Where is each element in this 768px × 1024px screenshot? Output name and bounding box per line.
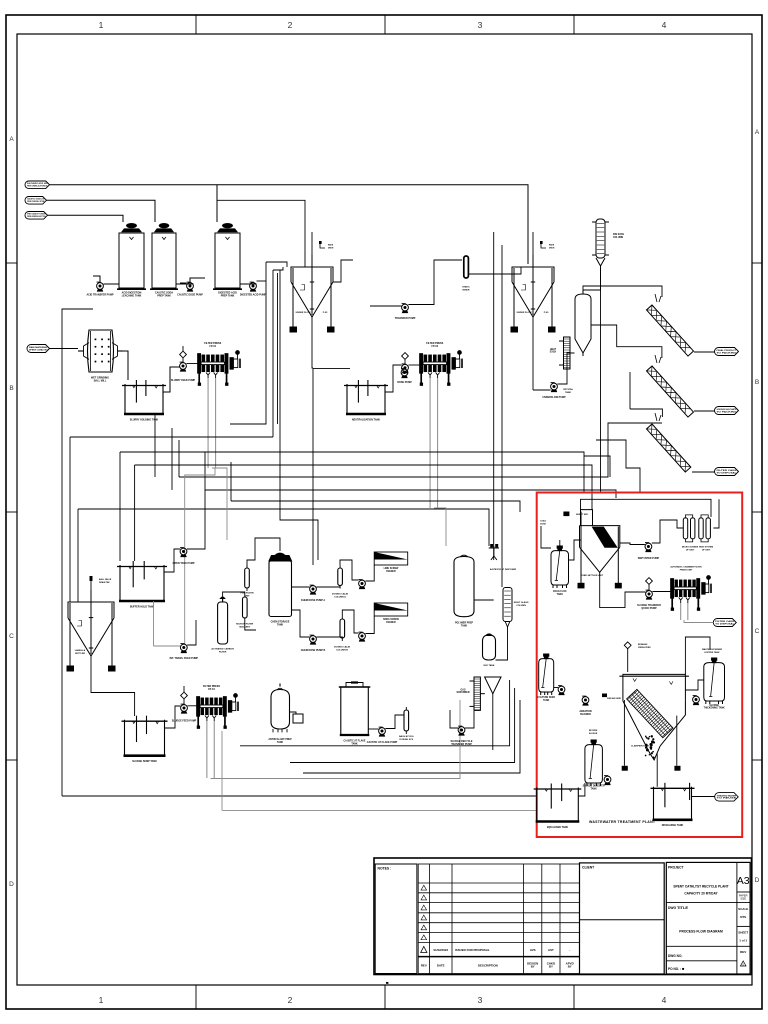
clarifier CL-02 secondary thickener <box>511 255 555 332</box>
zone numbers <box>99 20 667 1005</box>
svg-text:FILTER PRESSFP-02: FILTER PRESSFP-02 <box>426 342 443 348</box>
svg-text:A3: A3 <box>737 875 750 887</box>
pump P-16 screw feeder pump A <box>359 580 366 590</box>
svg-text:RAKEDRIVE: RAKEDRIVE <box>328 244 334 250</box>
svg-text:ACTIVATED CARBONFILTER: ACTIVATED CARBONFILTER <box>211 648 234 654</box>
svg-text:1: 1 <box>99 995 104 1005</box>
return line y=773 to WWTP riser <box>303 700 520 773</box>
vessel V-02 chemical storage <box>269 553 292 616</box>
svg-text:B: B <box>755 379 759 386</box>
svg-text:RAKEDRIVE: RAKEDRIVE <box>549 244 555 250</box>
conveyor C-01 product belt conveyor <box>647 305 694 356</box>
svg-text:NAOH AT 20%DOSING SYS: NAOH AT 20%DOSING SYS <box>399 735 414 741</box>
pump P-W5 beside TK-W3 <box>693 696 700 706</box>
svg-text:SPENT CATALYST POWDERFROM GRIN: SPENT CATALYST POWDERFROM GRINDING SECTI… <box>27 213 46 218</box>
pump P-06 transfer pump to static mixer <box>402 304 409 314</box>
svg-text:COAGDOSE: COAGDOSE <box>540 520 546 526</box>
svg-text:PAPERSIZE: PAPERSIZE <box>739 894 748 901</box>
wire air inlet down to MBBR tank <box>627 649 629 672</box>
gray equalisation line y=810 <box>222 809 537 811</box>
diamond valve before FP-02 <box>402 353 409 360</box>
tank T-01 ACID DIGESTION LEACHING TANK <box>117 223 146 289</box>
flag label SPENT CATALYST feed <box>25 212 48 220</box>
wire dosing train B <box>316 637 342 638</box>
svg-text:AUTOMATIC CHAMBER FILTERPRESS: AUTOMATIC CHAMBER FILTERPRESS UNIT <box>670 566 702 572</box>
svg-text:NOTES :: NOTES : <box>378 867 392 871</box>
wire DAF-01 overflow to pump P-W1 <box>620 543 645 545</box>
svg-text:SLUDGE FEED PUMP: SLUDGE FEED PUMP <box>172 720 197 723</box>
open tank TK-W6 treated water sump <box>651 783 695 820</box>
agitator tank TK-W1 coagulation tank <box>551 546 569 588</box>
svg-text:STATICMIXER: STATICMIXER <box>462 286 470 292</box>
svg-text:WET GRINDINGBALL MILL: WET GRINDINGBALL MILL <box>91 377 109 383</box>
capsule EFFLUENT TO TREATMENT <box>713 619 736 627</box>
svg-text:P-09: P-09 <box>544 312 549 314</box>
svg-text:TREATED WATERTO REUSE: TREATED WATERTO REUSE <box>717 794 737 799</box>
wire from slurry tank TK-B to pump P-06 <box>370 305 402 307</box>
wire tank TK-F to pump P-13 <box>165 706 181 728</box>
wire top header red box row1 <box>581 499 712 517</box>
plate settler ST-W1 MBBR clarifier <box>619 674 689 760</box>
wire TK-W5 to settler area <box>578 783 585 796</box>
open tank TK-W5 aeration holding tank inside red box left <box>534 784 582 822</box>
svg-text:3: 3 <box>478 995 483 1005</box>
vessel V-03 poly prep tank <box>454 555 474 617</box>
wire FP-03 drains to capsule <box>684 620 713 623</box>
inline static mixer SM-01 <box>464 256 469 278</box>
wire into clarifier CL-01 from top <box>311 232 313 267</box>
wire tank T-03 to pump P-03 <box>240 283 257 285</box>
svg-text:D: D <box>755 877 760 884</box>
svg-text:ACID DIGESTIONLEACHING TANK: ACID DIGESTIONLEACHING TANK <box>122 292 142 298</box>
filter press FP-02 <box>420 351 462 386</box>
motor symbol M on DAF feed <box>563 512 569 517</box>
wire tank T-01 to pump P-01 <box>104 283 120 285</box>
routing bundle horizontal lines mid sheet <box>70 436 273 438</box>
svg-text:CLIENT: CLIENT <box>582 866 595 870</box>
svg-text:CHEM DOSE PUMP A: CHEM DOSE PUMP A <box>301 599 326 602</box>
svg-text:BIOMASSFRESH FEED: BIOMASSFRESH FEED <box>638 643 651 649</box>
pump P-13 press feed pump <box>181 704 188 714</box>
svg-text:SHEET MIX: SHEET MIX <box>576 514 588 516</box>
svg-text:SLUDGE TRANSFERQUICK PUMP: SLUDGE TRANSFERQUICK PUMP <box>637 604 661 610</box>
press FP-02 filtrate gray collection <box>434 508 446 546</box>
wire tank T-02 to pump P-02 <box>176 283 194 285</box>
wire column CR-01 down to vessel V-01 <box>583 266 601 294</box>
svg-text:BALL VALVEDRAIN TAP: BALL VALVEDRAIN TAP <box>99 578 112 584</box>
svg-text:DWG TITLE: DWG TITLE <box>668 905 688 910</box>
wire pump P-02 up to digestion line <box>190 278 205 283</box>
funnel FN-01 to drain <box>485 677 501 694</box>
svg-text:FILTER PRESSFP-04: FILTER PRESSFP-04 <box>203 685 220 691</box>
svg-text:DIGESTED ACID PUMP: DIGESTED ACID PUMP <box>240 294 267 297</box>
pump P-03 digested acid pump <box>250 282 257 292</box>
pump P-18 caustic pump <box>379 727 386 737</box>
pump P-10 chilled pump under CL-02 <box>551 383 558 393</box>
agitator tank TK-W4 digester left <box>585 740 603 786</box>
svg-text:REV: REV <box>421 964 427 968</box>
extra feed riser <box>277 273 279 424</box>
svg-text:SODIUM SULPHATETO PACKING: SODIUM SULPHATETO PACKING <box>717 408 738 413</box>
flag label CAUSTIC SODA lye <box>25 197 47 205</box>
svg-text:AST: AST <box>548 948 554 952</box>
wire into V-02 <box>247 538 280 568</box>
svg-text:P-05: P-05 <box>323 312 328 314</box>
svg-text:DATE: DATE <box>437 964 445 968</box>
wire feed to conveyor C-03 <box>630 409 662 417</box>
main recycle water line y=796 <box>62 795 537 797</box>
svg-text:NEUTRALISATION TANK: NEUTRALISATION TANK <box>352 418 380 421</box>
clarifier CL-01 overflow to slurry tank TK-B <box>333 260 353 282</box>
capsule CAKE TO DISPOSAL <box>715 468 739 476</box>
svg-text:ISSUED FOR PROPOSAL: ISSUED FOR PROPOSAL <box>455 948 490 952</box>
wire valve up <box>182 346 184 351</box>
screw feeder SF-B with wedge <box>374 603 408 616</box>
wire DAF underflow to pump P-W2 <box>600 572 646 608</box>
wire settler top to TK-W3 top <box>685 637 710 674</box>
svg-text:DOSING CALIBCOLUMN B: DOSING CALIBCOLUMN B <box>334 646 350 652</box>
wire ACF to strainer <box>223 592 245 602</box>
svg-text:CAUSTIC AT FLAKETANK: CAUSTIC AT FLAKETANK <box>344 740 366 746</box>
motor symbol M blower <box>602 694 607 698</box>
flag label RAW MATERIAL SPENT CATALYST <box>27 345 50 353</box>
wire from sulphuric acid flag to tank T-03 and clarifier CL-02 <box>50 185 529 264</box>
digestion transfer wire to clarifier CL-01 <box>217 200 305 267</box>
flag on clarifier CL-03 top <box>90 578 92 602</box>
svg-text:SCALENTS: SCALENTS <box>738 907 748 919</box>
membrane module MF-B <box>699 515 711 542</box>
capsule PRODUCT-1 TO PACKING <box>715 348 739 356</box>
svg-text:A: A <box>9 136 14 143</box>
wire TK-W6 to capsule <box>692 796 715 798</box>
svg-text:HEATEXCH: HEATEXCH <box>550 348 557 354</box>
wire flag to ball mill <box>50 348 79 350</box>
svg-text:PO NO. : ■: PO NO. : ■ <box>668 966 685 971</box>
svg-text:FINE FILTERUNIT: FINE FILTERUNIT <box>240 593 254 598</box>
svg-text:HIGH SYSTEMUF UNIT: HIGH SYSTEMUF UNIT <box>699 547 714 552</box>
svg-text:WASTEWATER TREATMENT PLANT: WASTEWATER TREATMENT PLANT <box>589 820 656 824</box>
svg-text:LIME SCREWFEEDER: LIME SCREWFEEDER <box>384 568 400 573</box>
svg-text:SLUDGETHICKENING TANK: SLUDGETHICKENING TANK <box>704 705 725 710</box>
legs of settler ST-W1 <box>623 700 625 766</box>
svg-text:DOSING CALIBCOLUMN A: DOSING CALIBCOLUMN A <box>332 593 348 599</box>
svg-text:UNDER FLOW: UNDER FLOW <box>517 312 533 314</box>
svg-text:DIGESTED ACIDPREP TANK: DIGESTED ACIDPREP TANK <box>218 292 237 298</box>
svg-text:CAUSTIC DOSE PUMP: CAUSTIC DOSE PUMP <box>177 294 203 297</box>
diamond valve before filter press FP-04 <box>181 692 188 699</box>
revision row text <box>421 948 574 969</box>
svg-text:ACID TRANSFER PUMP: ACID TRANSFER PUMP <box>86 294 113 297</box>
pump P-W6 beside TK-W4 <box>604 776 611 786</box>
clarifier CL-02 underflow down <box>532 317 534 390</box>
client cell <box>580 863 665 974</box>
pump P-17 screw feeder pump B <box>359 632 366 642</box>
svg-text:CHKDBY: CHKDBY <box>547 962 555 969</box>
svg-text:GASSCRUBBER: GASSCRUBBER <box>456 688 469 694</box>
svg-text:CRYSTALTANK: CRYSTALTANK <box>563 388 574 394</box>
revision table <box>418 864 579 974</box>
svg-text:CAUSTIC SODAPREP TANK: CAUSTIC SODAPREP TANK <box>155 292 173 298</box>
project cell <box>666 862 750 974</box>
title block frame <box>374 858 752 975</box>
svg-text:AGITATOR AT DISPOSER: AGITATOR AT DISPOSER <box>490 568 517 571</box>
packed column PC-02 degasser <box>470 677 485 710</box>
revision triangles <box>421 885 427 890</box>
conveyor C-02 product belt conveyor <box>647 366 694 417</box>
return line y=745 from press area to WWTP riser <box>240 680 510 746</box>
dosing bar DS-02 <box>404 710 409 731</box>
wire settler to TK-W3 <box>685 680 703 690</box>
svg-text:PROJECT: PROJECT <box>668 866 684 870</box>
wire feed to conveyor C-02 from crystalliser overflow <box>591 325 662 358</box>
wire SG-01 down <box>496 627 508 660</box>
svg-text:CHEM DOSE PUMP B: CHEM DOSE PUMP B <box>301 649 326 652</box>
svg-text:CLARIFIER TANK: CLARIFIER TANK <box>631 745 650 748</box>
svg-text:RETURNSLUDGE: RETURNSLUDGE <box>589 730 598 735</box>
svg-text:DWG NO.: DWG NO. <box>668 954 682 958</box>
capsule PRODUCT-2 TO PACKING <box>715 407 739 415</box>
svg-text:DISCHARGE TANK: DISCHARGE TANK <box>662 824 684 827</box>
tank T-02 CAUSTIC SODA PREP TANK <box>150 223 178 289</box>
wire TK-B to pump P-08 <box>385 365 402 392</box>
tall column CR-01 ion exchange column <box>592 219 609 258</box>
wire V-03 to SG-01 <box>474 599 494 601</box>
svg-text:3: 3 <box>478 20 483 30</box>
stair wire to red box A <box>596 440 640 493</box>
pump P-19 sludge recycle pump <box>458 726 465 736</box>
svg-text:SHEET1 of 1: SHEET1 of 1 <box>738 931 748 943</box>
pump P-15 dosing pump B <box>310 635 317 645</box>
motor flag on clarifier CL-01 shaft <box>320 242 325 248</box>
svg-text:CHEM STORAGETANK: CHEM STORAGETANK <box>271 621 290 627</box>
svg-text:1: 1 <box>99 20 104 30</box>
pump P-14 dosing pump A <box>310 585 317 595</box>
activated carbon filter column ACF-01 <box>218 597 228 644</box>
svg-text:SULPHURIC ACID 98%FROM CHEMICA: SULPHURIC ACID 98%FROM CHEMICAL STORAGE <box>27 182 48 187</box>
svg-text:2: 2 <box>288 20 293 30</box>
open tank TK-F filter feed tank <box>122 716 168 756</box>
svg-text:SPENT CATALYST RECYCLE PLANTCA: SPENT CATALYST RECYCLE PLANTCAPACITY 20 … <box>673 885 728 896</box>
red boundary WASTEWATER TREATMENT PLANT battery limit <box>537 493 743 838</box>
open tank TK-C intermediate tank <box>117 561 167 601</box>
press FP-01 filtrate gray collection <box>212 468 227 540</box>
filter press FP-03 <box>671 576 711 611</box>
svg-text:TRANSFER PUMP: TRANSFER PUMP <box>395 317 416 320</box>
inline strainer bar ST-01 <box>243 597 248 618</box>
ball mill BM-01 WET GRINDING BALL MILL <box>78 330 123 372</box>
svg-text:SLUDGE DIGESTERTANK: SLUDGE DIGESTERTANK <box>583 786 605 791</box>
inline strainer before V-02 <box>245 568 250 588</box>
wire pump P-W1 up to membranes <box>652 520 683 543</box>
funnel stem <box>492 694 494 750</box>
diamond valve before filter press FP-01 <box>180 351 187 358</box>
calibration column B <box>340 619 345 638</box>
svg-text:CAUSTIC AT FLAKE PUMP: CAUSTIC AT FLAKE PUMP <box>367 741 398 744</box>
capsule TREATED WATER DISPOSAL <box>715 793 739 802</box>
svg-text:-: - <box>569 948 570 952</box>
svg-text:SLURRY HOLDING TANK: SLURRY HOLDING TANK <box>130 418 159 421</box>
wire static mixer to clarifier CL-02 <box>468 267 521 274</box>
svg-text:ANTISCALANT PREPTANK: ANTISCALANT PREPTANK <box>268 738 292 744</box>
pump P-W2 sludge transfer pump <box>646 590 653 600</box>
pump P-04 slurry feed pump <box>180 362 187 372</box>
svg-text:C: C <box>9 633 14 640</box>
svg-text:UNDERFLOW PUMP: UNDERFLOW PUMP <box>542 396 566 399</box>
svg-text:FINAL PRODUCTTO PACKING: FINAL PRODUCTTO PACKING <box>717 349 738 354</box>
flag label SULPHURIC ACID from storage <box>25 181 50 189</box>
svg-text:DESIGNBY: DESIGNBY <box>527 962 538 969</box>
svg-text:FILTER CAKETO DISPOSAL: FILTER CAKETO DISPOSAL <box>715 620 735 625</box>
graduated column SG-01 <box>503 588 512 628</box>
small transfer box beside RX-01 <box>293 714 303 723</box>
filter press FP-01 <box>198 351 240 386</box>
svg-text:B: B <box>9 385 13 392</box>
svg-text:CULTURE FEEDTANK: CULTURE FEEDTANK <box>537 697 555 702</box>
svg-text:DESCRIPTION: DESCRIPTION <box>478 964 498 968</box>
svg-text:FILTER CAKETO DISPOSAL: FILTER CAKETO DISPOSAL <box>717 469 738 474</box>
vessel V-01 crystalliser <box>575 294 591 356</box>
pump P-11 intermediate transfer pump <box>180 548 187 558</box>
svg-text:MICRO SCREENUF UNIT: MICRO SCREENUF UNIT <box>682 547 699 552</box>
svg-text:AERATIONBLOWER: AERATIONBLOWER <box>579 710 592 716</box>
return line y=762 to WWTP riser <box>290 688 515 763</box>
open tank TK-B neutralised slurry tank <box>344 380 388 414</box>
svg-text:2: 2 <box>288 995 293 1005</box>
stray dot below title block <box>386 982 388 984</box>
vertical line left of ball mill <box>62 309 93 350</box>
clarifier CL-03 underflow to tank TK-F <box>91 656 135 716</box>
svg-text:4: 4 <box>662 995 667 1005</box>
calibration column A <box>338 568 343 586</box>
agitator motor symbol mid sheet <box>489 546 499 560</box>
lamella clarifier DAF-01 with black plate pack <box>578 510 621 588</box>
wire dosing into TK-W1 <box>541 526 551 548</box>
wire slurry tank to press pump <box>163 367 180 392</box>
agitator tank TK-W2 culture tank <box>539 654 554 695</box>
membrane module MF-A <box>683 515 695 542</box>
svg-text:SIGHT GLASSCOLUMN: SIGHT GLASSCOLUMN <box>514 601 529 607</box>
tank T-03 DIGESTED ACID PREP TANK <box>213 223 242 289</box>
wire conveyor C-01 to capsule <box>694 351 715 353</box>
svg-text:FINE AIR GRID: FINE AIR GRID <box>607 697 622 700</box>
svg-text:DOSE PUMP: DOSE PUMP <box>397 381 412 384</box>
svg-text:SLUDGE SUMP TANK: SLUDGE SUMP TANK <box>132 760 157 763</box>
wire vessel V-01 to conveyor C-01 feed <box>583 286 662 297</box>
pump P-W1 DAF outflow pump <box>645 543 652 553</box>
svg-text:TUBE SETTLER UNIT: TUBE SETTLER UNIT <box>581 575 604 577</box>
svg-text:DAY TANK: DAY TANK <box>484 664 495 667</box>
svg-text:ION EXCHCOLUMN: ION EXCHCOLUMN <box>613 234 624 239</box>
pump P-12 interstage pump with gray suction <box>180 644 187 654</box>
open tank TK-A ball mill slurry tank <box>122 380 166 414</box>
svg-text:AVS: AVS <box>530 948 536 952</box>
wire from caustic flag to tank T-02 <box>47 200 156 222</box>
nested feed wires left of clarifier CL-01 <box>266 262 287 267</box>
svg-text:SLUDGE RECYCLETRANSFER PUMP: SLUDGE RECYCLETRANSFER PUMP <box>450 740 472 746</box>
svg-text:FILTER PRESSFP-01: FILTER PRESSFP-01 <box>204 342 221 348</box>
pump P-W4 aeration blower <box>582 696 589 706</box>
svg-text:LAMELLASETTLER: LAMELLASETTLER <box>75 649 86 655</box>
svg-text:REV: REV <box>740 950 746 954</box>
clarifier CL-01 primary thickener <box>290 255 334 332</box>
zone letters <box>9 129 760 888</box>
svg-text:WWT INTER PUMP: WWT INTER PUMP <box>638 557 660 560</box>
svg-text:SODA SCREWFEEDER: SODA SCREWFEEDER <box>383 618 400 624</box>
svg-text:4: 4 <box>662 20 667 30</box>
wire ball mill outlet to slurry tank <box>123 351 128 380</box>
wire dosing train A <box>316 586 340 588</box>
pump P-W3 culture pump <box>558 686 565 696</box>
svg-text:CAUSTIC SODA LYEFROM CHEMICAL: CAUSTIC SODA LYEFROM CHEMICAL STORE <box>27 198 45 203</box>
svg-text:C: C <box>755 628 760 635</box>
notes cell <box>375 864 417 974</box>
svg-text:INTER TANK PUMP: INTER TANK PUMP <box>173 562 195 565</box>
conveyor C-03 cake belt conveyor <box>647 424 691 472</box>
pump P-07 above TK-B <box>401 369 408 379</box>
wire pump P-03 to clarifier CL-01 feed riser <box>257 280 267 282</box>
svg-text:01/02/2023: 01/02/2023 <box>433 948 448 952</box>
svg-text:PROCESS FLOW DIAGRAM: PROCESS FLOW DIAGRAM <box>679 930 723 934</box>
wire pump P-06 up to static mixer SM-01 <box>408 260 462 305</box>
wire TK-W1 to DAF-01 feed well <box>569 540 581 560</box>
svg-text:A: A <box>755 129 760 136</box>
agitator tank TK-W3 sludge thickening right <box>704 658 725 704</box>
screw feeder SF-A with wedge <box>374 552 408 565</box>
wire into clarifier CL-02 feed well <box>532 232 534 267</box>
clarifier CL-01 underflow line <box>312 317 313 368</box>
packed column PC-01 beside V-01 <box>559 337 575 369</box>
pump P-02 caustic dose pump <box>187 282 194 292</box>
clarifier CL-03 tertiary clarifier <box>67 590 115 671</box>
wire membranes out right <box>713 499 719 528</box>
svg-text:WASTE THICKENERHOPPER TANK: WASTE THICKENERHOPPER TANK <box>702 648 723 654</box>
pump P-08 FP-02 feed pump <box>402 364 409 374</box>
motor flag on clarifier CL-02 <box>541 242 546 248</box>
svg-text:D: D <box>9 881 14 888</box>
svg-text:UNDER FLOW: UNDER FLOW <box>296 312 312 314</box>
gray filtrate header y=779 <box>211 700 461 779</box>
stair wire to red box B <box>584 456 610 477</box>
svg-text:INT. TRANS. FEED PUMP: INT. TRANS. FEED PUMP <box>170 657 199 660</box>
reactor vessel RX-01 rounded <box>271 684 290 733</box>
svg-text:APVDBY: APVDBY <box>566 962 574 969</box>
pump P-01 acid transfer pump <box>97 282 104 292</box>
wire from spent catalyst flag to tank T-01 <box>48 215 124 222</box>
svg-text:EQUALISED TANK: EQUALISED TANK <box>547 826 568 829</box>
wire pump P-04 to filter press FP-01 <box>186 363 200 365</box>
vessel V-04 small dome vessel <box>483 634 496 660</box>
long vertical feed lines centre <box>493 232 495 560</box>
svg-text:SLURRY FEED PUMP: SLURRY FEED PUMP <box>171 379 196 382</box>
wire L-loop left of TK-B <box>313 368 350 370</box>
svg-text:BUFFER HOLD TANK: BUFFER HOLD TANK <box>130 605 155 608</box>
svg-text:COAG FLOCTANK: COAG FLOCTANK <box>553 590 567 596</box>
diamond valve before FP-03 <box>646 578 653 585</box>
filter press FP-04 <box>197 694 238 729</box>
tank TK-G caustic day tank <box>339 683 371 736</box>
wire long vertical from column area down to WWTP <box>600 266 602 492</box>
diamond valve air inlet <box>624 642 631 649</box>
svg-text:POLYMER PREPTANK: POLYMER PREPTANK <box>455 623 474 628</box>
wire settler vertex down to sump <box>656 754 658 787</box>
svg-text:RAW MATERIALSPENT CATALYST: RAW MATERIALSPENT CATALYST <box>29 346 48 351</box>
